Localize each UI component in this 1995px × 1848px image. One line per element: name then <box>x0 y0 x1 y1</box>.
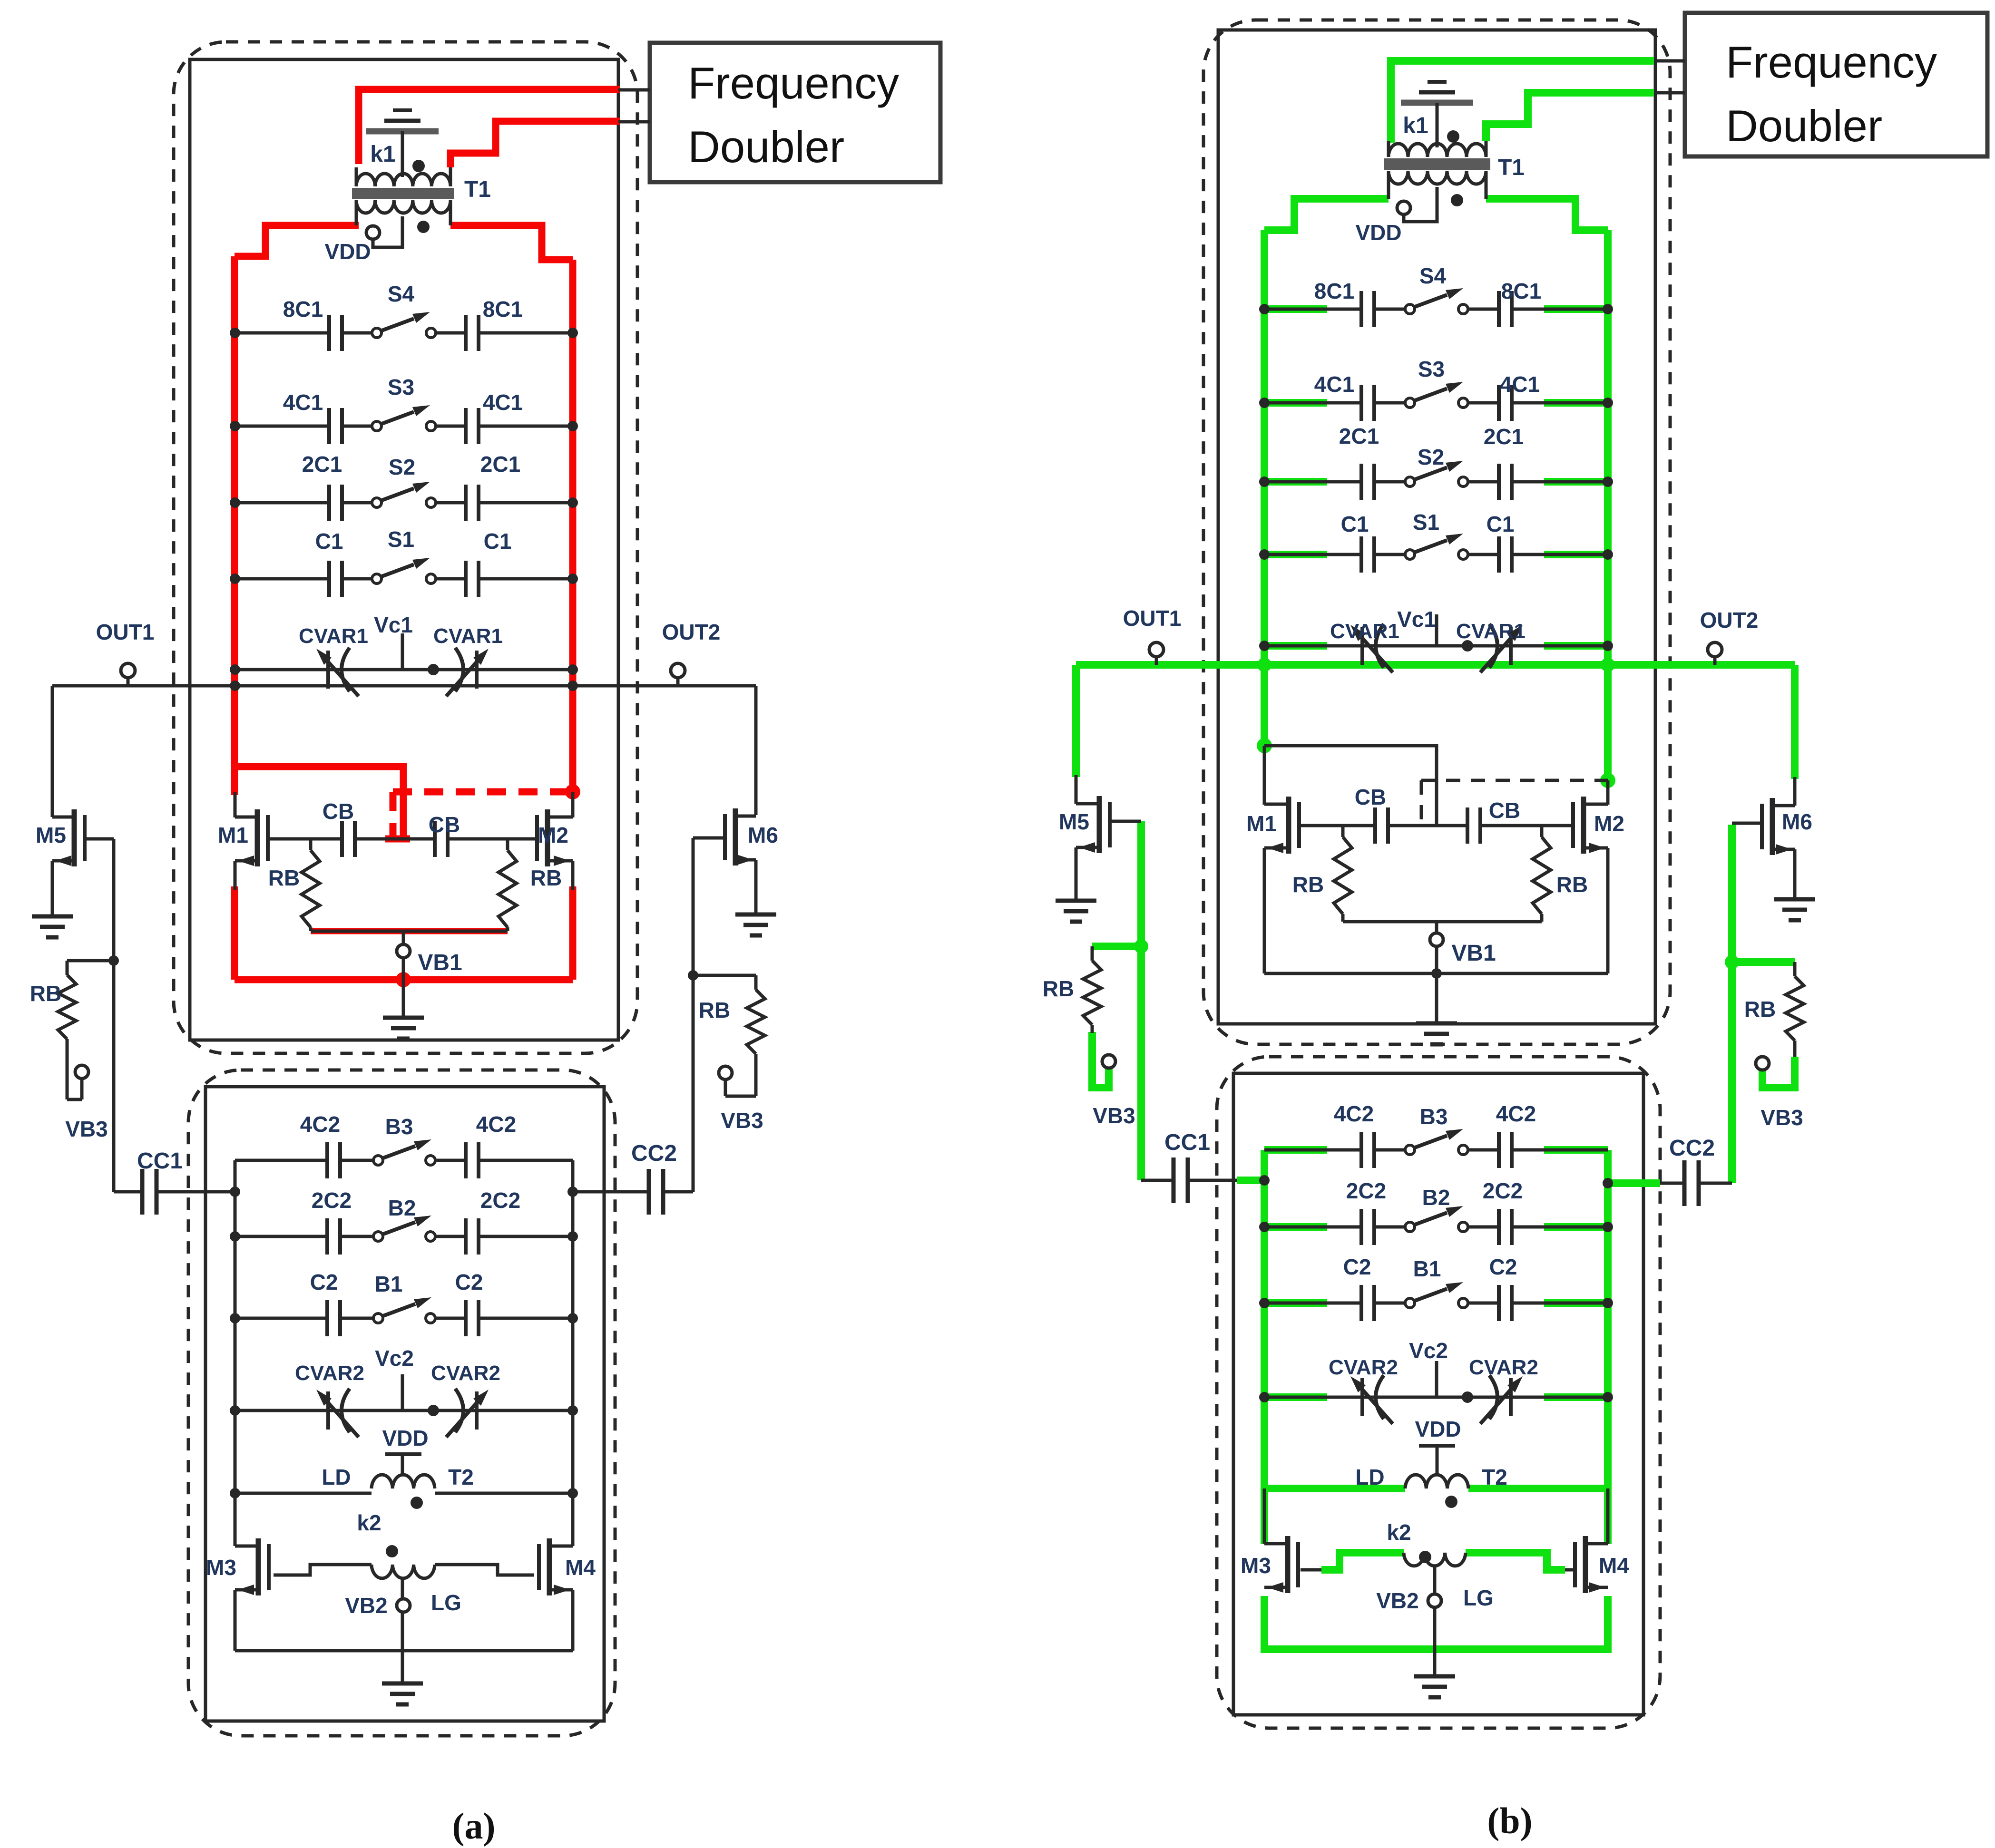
capacitor CB left (a) <box>340 821 344 857</box>
ground M5 (b) <box>1056 899 1096 903</box>
switch S1 (b) <box>1405 550 1415 559</box>
capacitor C1 left (a) <box>327 561 331 597</box>
wire T1 left ends (b) <box>1387 171 1390 199</box>
node junction left rail row S1 (a) <box>230 574 240 584</box>
wire row S3 right (a) <box>479 425 573 428</box>
svg-text:Vc1: Vc1 <box>374 613 413 637</box>
wire M6 gate stub (b) <box>1732 822 1762 825</box>
wire red VDD-right to rail (a) <box>450 225 573 260</box>
wire M3 source down (a) <box>234 1590 237 1651</box>
wire row B3 mid-right (b) <box>1468 1148 1499 1152</box>
wire green row stub right y2740 (b) <box>1544 1299 1608 1307</box>
svg-text:VB2: VB2 <box>345 1593 387 1618</box>
svg-text:CVAR2: CVAR2 <box>1469 1356 1538 1379</box>
node junction left rail row S4 (b) <box>1259 304 1270 314</box>
svg-text:2C2: 2C2 <box>480 1188 520 1213</box>
transistor M5 (a) <box>72 809 77 866</box>
node junction left rail row S3 (b) <box>1259 398 1270 408</box>
wire OUT2 to M6 drain (a) <box>754 686 758 815</box>
svg-text:CB: CB <box>429 812 460 837</box>
wire row S4 mid-left (a) <box>342 331 372 335</box>
svg-text:VDD: VDD <box>1355 220 1401 245</box>
svg-text:CVAR2: CVAR2 <box>431 1362 500 1385</box>
svg-text:M1: M1 <box>218 823 248 847</box>
capacitor 2C1 left (a) <box>327 485 331 521</box>
wire row S3 mid-left (a) <box>342 425 372 428</box>
wire Vc2 stem (b) <box>1435 1361 1438 1397</box>
node LG polarity dot (b) <box>1419 1551 1431 1563</box>
capacitor CC2 (a) <box>647 1169 651 1215</box>
varactor CVAR2 left (a) <box>326 1391 330 1430</box>
transformer T1 primary coil (a) <box>356 174 450 186</box>
node junction right rail row S3 (b) <box>1603 398 1613 408</box>
terminal VB1 circle (a) <box>402 931 405 944</box>
svg-text:M1: M1 <box>1246 811 1277 836</box>
wire row S1 left (b) <box>1264 553 1361 556</box>
wire green row stub left y2580 (b) <box>1264 1223 1327 1231</box>
wire M4 source down (a) <box>571 1590 575 1651</box>
wire green to RB outer-right (b) <box>1732 958 1795 966</box>
node T1 primary polarity dot (a) <box>412 160 425 172</box>
wire green T1 top to doubler (b) <box>1391 61 1654 143</box>
ground VB1 (b) <box>1416 1021 1457 1026</box>
capacitor C1 right (a) <box>464 561 468 597</box>
wire row S1 left (a) <box>235 577 329 581</box>
node junction right rail row S4 (b) <box>1603 304 1613 314</box>
svg-text:4C2: 4C2 <box>476 1112 516 1137</box>
wire M2 source down (b) <box>1606 848 1610 973</box>
svg-text:M6: M6 <box>1782 809 1812 834</box>
capacitor 2C2 left-bottom (b) <box>1359 1209 1363 1245</box>
varactor CVAR1 right (a) <box>475 651 479 689</box>
wire CC1 to bank (a) <box>156 1190 235 1194</box>
svg-text:RB: RB <box>530 866 562 890</box>
capacitor 4C1 right (a) <box>464 408 468 444</box>
wire green M5 gate rail (b) <box>1137 821 1145 1180</box>
capacitor 4C2 right-bottom (a) <box>464 1142 468 1178</box>
wire M4 drain rail (b) <box>1606 1488 1610 1544</box>
transformer T1 secondary coil (a) <box>356 200 450 213</box>
wire row S3 left (b) <box>1264 401 1361 405</box>
svg-text:C2: C2 <box>310 1270 338 1294</box>
terminal VB3 right circle (a) <box>719 1066 732 1080</box>
wire VB3 right hook (a) <box>725 1095 756 1098</box>
svg-text:C1: C1 <box>315 529 343 554</box>
frequency doubler box (a) <box>650 43 940 182</box>
wire M5 gate vertical (a) <box>112 839 116 1192</box>
svg-text:LD: LD <box>322 1465 351 1489</box>
svg-text:M5: M5 <box>1059 809 1089 834</box>
wire row B3 left (a) <box>235 1159 327 1162</box>
inductor LG (b) <box>1404 1553 1466 1566</box>
wire row B1 mid-left (a) <box>340 1317 373 1320</box>
svg-text:Frequency: Frequency <box>1726 37 1937 87</box>
node junction left rail varactor (a) <box>230 664 240 675</box>
wire bottom bank left rail (a) <box>234 1160 237 1542</box>
wire cross dashed center-to-right (b) <box>1421 779 1608 782</box>
wire row B1 mid-right (a) <box>435 1317 466 1320</box>
wire row S2 left (b) <box>1264 480 1361 484</box>
terminal VB3 left circle (b) <box>1102 1055 1115 1068</box>
panel a output-VCO solid box <box>205 1087 604 1721</box>
wire CC1 (b) <box>1141 1179 1174 1182</box>
wire row S2 right (b) <box>1512 480 1608 484</box>
wire green M4 gate path (b) <box>1466 1553 1565 1570</box>
capacitor 2C1 right (b) <box>1497 464 1501 500</box>
transistor M2 (a) <box>545 809 550 866</box>
ground VB1 (a) <box>383 1016 424 1020</box>
capacitor CB right (b) <box>1466 807 1469 844</box>
wire row S1 mid-right (b) <box>1468 553 1499 556</box>
wire Vc1 stem (a) <box>401 633 404 670</box>
varactor CVAR2 right (a) <box>475 1391 479 1430</box>
wire green CC1 stub (b) <box>1237 1177 1264 1184</box>
transistor M3 (b) <box>1285 1536 1291 1593</box>
svg-text:CVAR1: CVAR1 <box>1330 620 1399 643</box>
wire red dashed cross-couple vertical (a) <box>390 792 397 837</box>
wire left rail M1 drain (a) <box>234 792 237 817</box>
wire M4 gate path (a) <box>435 1565 534 1575</box>
transistor M1 (a) <box>255 809 260 866</box>
svg-text:S1: S1 <box>388 527 414 552</box>
wire row B2 left (a) <box>235 1235 327 1238</box>
node junction left rail row B1 (a) <box>230 1313 240 1323</box>
switch S3 (b) <box>1405 398 1415 408</box>
svg-text:M3: M3 <box>206 1555 236 1580</box>
wire CC2 (b) <box>1660 1182 1684 1185</box>
svg-text:(a): (a) <box>452 1805 496 1847</box>
wire RB bus (b) <box>1343 920 1542 924</box>
node junction source bus (b) <box>1431 968 1442 979</box>
capacitor C2 left-bottom (b) <box>1359 1285 1363 1321</box>
wire green LD row left (b) <box>1264 1485 1405 1492</box>
wire row B2 mid-right (b) <box>1468 1226 1499 1229</box>
node junction right rail row S1 (a) <box>567 574 578 584</box>
wire row S4 mid-right (b) <box>1468 308 1499 311</box>
capacitor C2 right-bottom (a) <box>464 1300 468 1336</box>
node junction right rail varactor (b) <box>1603 641 1613 651</box>
switch B3 (b) <box>1405 1145 1415 1155</box>
wire row S3 left (a) <box>235 425 329 428</box>
wire green row stub right y2938 (b) <box>1544 1393 1608 1401</box>
node junction right rail row B2 (b) <box>1603 1222 1613 1232</box>
node junction right rail row S4 (a) <box>567 328 578 338</box>
wire CC2 to M6 branch (a) <box>663 1190 693 1194</box>
svg-text:8C1: 8C1 <box>483 297 523 321</box>
varactor CVAR1 right (b) <box>1509 627 1513 665</box>
wire row B3 right (a) <box>479 1159 573 1162</box>
capacitor C2 left-bottom (a) <box>325 1300 329 1336</box>
wire green row stub right top-bank y847 (b) <box>1544 399 1608 407</box>
transformer T1 secondary coil (b) <box>1389 171 1486 184</box>
wire ground stem (b) <box>1435 973 1438 1023</box>
wire source bus bottom (a) <box>235 1649 573 1653</box>
node varactor mid dot (b) <box>1462 640 1473 652</box>
switch B1 (b) <box>1405 1298 1415 1308</box>
inductor LG (a) <box>372 1565 435 1578</box>
svg-text:Vc1: Vc1 <box>1397 607 1436 632</box>
wire green source bus (b) <box>1264 1596 1608 1649</box>
ground bottom tank (b) <box>1414 1674 1455 1679</box>
wire green row stub left y2938 (b) <box>1264 1393 1327 1401</box>
svg-text:OUT2: OUT2 <box>662 620 721 644</box>
svg-text:RB: RB <box>268 866 300 890</box>
wire green M6 drain drop (b) <box>1791 665 1799 779</box>
svg-text:CVAR1: CVAR1 <box>299 624 368 648</box>
wire green LD row right (b) <box>1468 1485 1608 1492</box>
panel b output-VCO dashed boundary <box>1217 1057 1660 1728</box>
wire VDD stem (a) <box>401 1454 404 1473</box>
wire red left tank rail (a) <box>231 256 238 795</box>
node junction right rail varactor2 (b) <box>1603 1392 1613 1402</box>
wire row B1 right (a) <box>479 1317 573 1320</box>
transistor M5 (b) <box>1097 796 1102 853</box>
wire row S2 mid-left (a) <box>342 501 372 505</box>
wire row B3 mid-left (a) <box>340 1159 373 1162</box>
node junction left rail row S3 (a) <box>230 421 240 431</box>
wire row B2 mid-left (a) <box>340 1235 373 1238</box>
terminal OUT1 circle (b) <box>1149 642 1164 657</box>
wire row S1 right (a) <box>479 577 573 581</box>
wire row B3 mid-right (a) <box>435 1159 466 1162</box>
svg-text:VDD: VDD <box>1415 1417 1461 1441</box>
capacitor CC1 (a) <box>140 1169 145 1215</box>
svg-text:4C1: 4C1 <box>283 390 323 415</box>
svg-text:CC1: CC1 <box>1164 1130 1210 1155</box>
wire M1 source down (b) <box>1263 848 1266 973</box>
node junction M6 gate RB (a) <box>688 970 698 981</box>
svg-text:M3: M3 <box>1241 1553 1271 1578</box>
node junction left rail OUT (a) <box>230 681 240 691</box>
svg-text:RB: RB <box>30 981 61 1006</box>
ground M5 (a) <box>32 914 73 919</box>
node junction right rail row S1 (b) <box>1603 549 1613 560</box>
svg-text:M4: M4 <box>565 1555 596 1580</box>
node junction left rail LD (a) <box>230 1488 240 1498</box>
wire M5 gate to vertical (a) <box>85 837 114 841</box>
wire VDD tap L (b) <box>1404 187 1437 222</box>
capacitor 4C1 left (b) <box>1359 385 1363 421</box>
svg-text:C2: C2 <box>1489 1255 1517 1279</box>
wire green row stub left top-bank y1013 (b) <box>1264 478 1327 486</box>
wire red gate overlay (a) <box>385 836 410 843</box>
svg-text:4C2: 4C2 <box>1334 1101 1374 1126</box>
capacitor 2C1 left (b) <box>1359 464 1363 500</box>
capacitor 4C2 left-bottom (a) <box>325 1142 329 1178</box>
capacitor 4C2 left-bottom (b) <box>1359 1132 1363 1168</box>
wire cross solid left-to-center (b) <box>1264 746 1437 826</box>
wire green T1 top2 to doubler (b) <box>1486 93 1654 141</box>
wire gate mid net (b) <box>1388 824 1467 827</box>
wire VB3 left hook (a) <box>67 1098 82 1101</box>
switch S4 (a) <box>372 328 381 338</box>
svg-text:VB3: VB3 <box>1760 1105 1803 1130</box>
svg-text:S3: S3 <box>1418 357 1445 381</box>
svg-text:k1: k1 <box>370 142 395 167</box>
terminal VB3 left circle (a) <box>75 1065 88 1079</box>
wire green row stub left top-bank y847 (b) <box>1264 399 1327 407</box>
wire M3 drain rail (b) <box>1263 1488 1266 1544</box>
svg-text:2C1: 2C1 <box>302 452 342 477</box>
wire red T1 secondary top to doubler (a) <box>359 89 620 164</box>
capacitor 2C2 left-bottom (a) <box>325 1218 329 1255</box>
wire left rail M1 drain (b) <box>1263 746 1266 805</box>
wire row S2 mid-left (b) <box>1374 480 1405 484</box>
wire green row stub left top-bank y1358 (b) <box>1264 642 1327 650</box>
terminal OUT1 circle (a) <box>121 663 135 678</box>
node junction left rail varactor (b) <box>1259 641 1270 651</box>
wire T1 secondary right end (a) <box>449 200 452 225</box>
switch B2 (b) <box>1405 1222 1415 1232</box>
wire VDD stem (b) <box>1436 1446 1439 1473</box>
capacitor CC1 (b) <box>1172 1157 1176 1203</box>
panel a core-VCO dashed boundary <box>174 42 637 1053</box>
capacitor 8C1 right (a) <box>464 315 468 351</box>
wire row B2 mid-right (a) <box>435 1235 466 1238</box>
wire M6 gate to vertical (a) <box>693 836 725 840</box>
terminal VB3 right circle (b) <box>1756 1057 1769 1070</box>
svg-text:2C1: 2C1 <box>480 452 520 477</box>
inductor LD (a) <box>372 1475 435 1488</box>
wire row S2 mid-right (b) <box>1468 480 1499 484</box>
wire M4 gate stub (b) <box>1565 1568 1575 1572</box>
transistor M1 (b) <box>1286 797 1291 854</box>
svg-text:RB: RB <box>1744 997 1776 1021</box>
wire M1 source to rail lower (a) <box>234 861 237 890</box>
svg-text:4C1: 4C1 <box>1314 372 1354 397</box>
panel b core-VCO dashed boundary <box>1203 20 1670 1044</box>
wire LG center stem (b) <box>1433 1567 1437 1676</box>
node green dot M5 gate junction (b) <box>1134 939 1148 953</box>
svg-text:2C2: 2C2 <box>1346 1178 1386 1203</box>
node junction left rail row S2 (a) <box>230 497 240 508</box>
resistor RB left (b) <box>1341 826 1345 837</box>
capacitor CC2 (b) <box>1682 1160 1687 1206</box>
transistor M4 (b) <box>1583 1536 1588 1593</box>
svg-text:VB2: VB2 <box>1376 1588 1418 1613</box>
wire red T1 secondary 2 to doubler (a) <box>450 121 620 167</box>
transistor M2 (b) <box>1581 797 1586 854</box>
wire green row stub left top-bank y1166 (b) <box>1264 551 1327 558</box>
svg-text:CC2: CC2 <box>631 1141 677 1166</box>
capacitor 2C2 right-bottom (a) <box>464 1218 468 1255</box>
wire M6 drain black (b) <box>1793 777 1797 806</box>
svg-text:CB: CB <box>323 799 354 824</box>
svg-text:C2: C2 <box>455 1270 483 1294</box>
node green dot right rail (b) <box>1600 773 1615 788</box>
node varactor2 mid dot (b) <box>1462 1391 1473 1403</box>
node T1 secondary polarity dot (a) <box>417 221 430 233</box>
switch S4 (b) <box>1405 304 1415 314</box>
node junction CC1 rail (b) <box>1259 1175 1270 1186</box>
wire red VB1 bus (a) <box>235 976 573 983</box>
svg-text:VDD: VDD <box>324 239 371 264</box>
wire CC2 (a) <box>573 1190 649 1194</box>
node junction CC1 rail (a) <box>230 1187 240 1197</box>
resistor RB right (a) <box>506 839 509 850</box>
svg-text:RB: RB <box>1043 976 1074 1001</box>
wire LG center stem (a) <box>401 1580 404 1683</box>
wire VDD tap L (a) <box>373 216 402 247</box>
svg-text:2C1: 2C1 <box>1484 424 1524 449</box>
capacitor 4C2 right-bottom (b) <box>1497 1132 1501 1168</box>
svg-text:B2: B2 <box>388 1196 416 1220</box>
svg-text:4C1: 4C1 <box>483 390 523 415</box>
wire T1 right ends (b) <box>1485 171 1488 199</box>
svg-text:CVAR2: CVAR2 <box>295 1362 364 1385</box>
node T2 polarity dot (b) <box>1445 1496 1457 1508</box>
wire row S3 mid-left (b) <box>1374 401 1405 405</box>
svg-text:S2: S2 <box>389 455 415 479</box>
wire M6 gate vertical (a) <box>692 838 695 1192</box>
wire row B1 mid-right (b) <box>1468 1302 1499 1305</box>
svg-text:LG: LG <box>1463 1585 1494 1610</box>
wire RB bus (a) <box>311 930 508 933</box>
node green dot left rail (b) <box>1257 738 1272 753</box>
switch S2 (a) <box>372 498 381 507</box>
wire row S2 mid-right (a) <box>436 501 466 505</box>
wire LD row left (a) <box>235 1492 372 1495</box>
capacitor 4C1 left (a) <box>327 408 331 444</box>
wire red left rail lower (a) <box>231 886 238 980</box>
transformer T1 core (a) <box>352 188 454 192</box>
terminal VB2 circle (b) <box>1428 1594 1441 1607</box>
svg-text:CB: CB <box>1355 785 1386 809</box>
wire row B3 right (b) <box>1512 1148 1608 1152</box>
wire row S4 mid-right (a) <box>436 331 466 335</box>
wire row S4 mid-left (b) <box>1374 308 1405 311</box>
node junction left rail varactor2 (a) <box>230 1405 240 1416</box>
ground top of T1 (a) <box>393 108 412 112</box>
svg-text:S2: S2 <box>1418 445 1444 469</box>
svg-text:k2: k2 <box>1387 1520 1411 1545</box>
terminal OUT2 circle (b) <box>1708 642 1722 657</box>
svg-text:CC1: CC1 <box>137 1148 183 1174</box>
svg-text:C1: C1 <box>1486 512 1515 536</box>
wire varactor row (b) <box>1264 644 1608 648</box>
wire to RB left-outer (a) <box>67 959 114 963</box>
capacitor C1 left (b) <box>1359 536 1363 573</box>
node junction left rail row B2 (b) <box>1259 1222 1270 1232</box>
capacitor 8C1 left (a) <box>327 315 331 351</box>
wire right rail M2 drain (a) <box>571 792 575 817</box>
svg-text:CVAR1: CVAR1 <box>1456 620 1526 643</box>
svg-text:VB1: VB1 <box>418 950 462 975</box>
svg-text:T1: T1 <box>1498 155 1525 180</box>
switch S2 (b) <box>1405 477 1415 486</box>
svg-text:C1: C1 <box>1341 512 1369 536</box>
wire green row stub left y2740 (b) <box>1264 1299 1327 1307</box>
svg-text:Vc2: Vc2 <box>375 1346 414 1371</box>
wire green row stub right top-bank y650 (b) <box>1544 305 1608 313</box>
wire M5 source down (b) <box>1075 847 1078 901</box>
wire VB1 ground stem (a) <box>402 980 405 1018</box>
ground top of T1 (b) <box>1428 80 1447 84</box>
svg-text:k2: k2 <box>357 1510 381 1535</box>
node junction right rail row S2 (b) <box>1603 477 1613 487</box>
panel a core-VCO solid box <box>190 59 618 1040</box>
wire green bottom right rail (b) <box>1604 1150 1612 1544</box>
wire red gate branch (a) <box>235 767 403 841</box>
node junction left rail row S1 (b) <box>1259 549 1270 560</box>
wire to RB outer-right (a) <box>693 974 756 977</box>
node junction right rail varactor2 (a) <box>567 1405 578 1416</box>
wire row S2 right (a) <box>479 501 573 505</box>
wire green VB3 left hook (b) <box>1092 1032 1109 1088</box>
capacitor 8C1 right (b) <box>1497 291 1501 327</box>
transformer T1 primary coil (b) <box>1389 144 1486 157</box>
wire Vc1 stem (b) <box>1435 614 1438 646</box>
